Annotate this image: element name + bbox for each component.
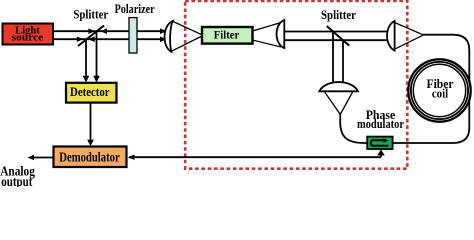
svg-text:Splitter: Splitter [321, 8, 356, 22]
svg-text:Detector: Detector [70, 85, 110, 99]
svg-text:Filter: Filter [214, 30, 239, 42]
svg-text:Polarizer: Polarizer [115, 2, 155, 16]
svg-text:source: source [12, 33, 44, 44]
svg-text:modulator: modulator [357, 117, 404, 131]
svg-text:coil: coil [432, 86, 449, 100]
svg-text:Demodulator: Demodulator [59, 150, 120, 165]
svg-text:Splitter: Splitter [73, 6, 108, 21]
svg-text:output: output [1, 174, 33, 187]
